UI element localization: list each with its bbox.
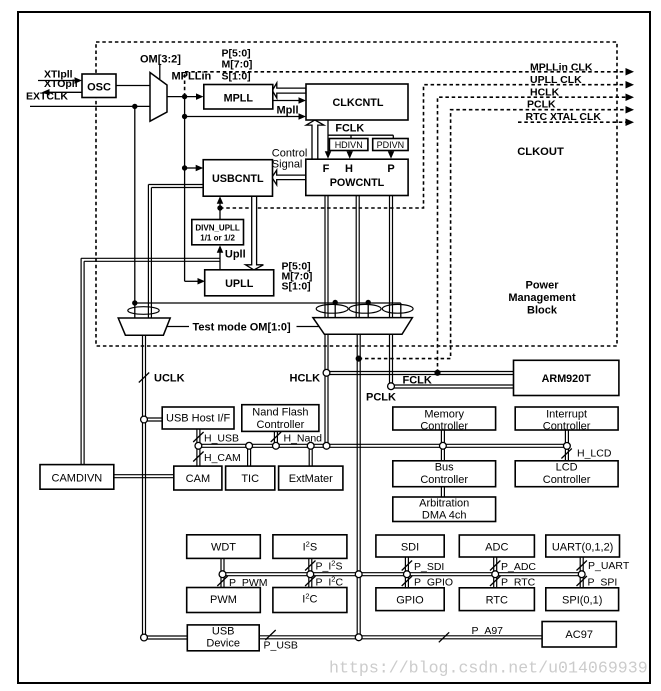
slash P_SDI <box>402 561 412 571</box>
wire test tap into ellipse 1 <box>334 303 336 319</box>
bus POWCNTL H rail <box>355 196 357 318</box>
bus I2S-I2C connector <box>308 558 310 587</box>
divider PDIVN <box>373 139 408 151</box>
net MPLLin CLK (dashed) <box>185 72 626 97</box>
wire MPLLin to USBCNTL <box>185 167 197 169</box>
wire test tap into ellipse 3 <box>400 303 402 318</box>
svg-text:SDI: SDI <box>401 542 419 554</box>
svg-text:HCLK: HCLK <box>290 373 321 385</box>
junction circle APB PCLK rail <box>355 571 362 578</box>
wire Upll DIVN_UPLL to USBCNTL <box>219 203 221 220</box>
svg-text:Arbitration: Arbitration <box>419 498 469 510</box>
bus SDI-GPIO connector <box>404 557 406 588</box>
slash P_USB <box>265 630 275 640</box>
slash P_A97 <box>439 632 449 642</box>
bus ADC-RTC connector <box>493 557 495 588</box>
svg-text:HDIVN: HDIVN <box>335 140 363 150</box>
svg-text:Interrupt: Interrupt <box>546 409 587 421</box>
svg-text:SPI(0,1): SPI(0,1) <box>562 595 602 607</box>
svg-text:Controller: Controller <box>420 474 468 486</box>
svg-text:Upll: Upll <box>225 249 246 261</box>
svg-text:UPLL CLK: UPLL CLK <box>530 74 582 86</box>
ellipse bundle P <box>382 304 413 313</box>
svg-text:Memory: Memory <box>424 409 464 421</box>
svg-text:Nand Flash: Nand Flash <box>252 407 308 419</box>
svg-text:OM[3:2]: OM[3:2] <box>140 54 181 66</box>
svg-text:P_RTC: P_RTC <box>501 577 536 589</box>
svg-text:P_UART: P_UART <box>588 560 630 572</box>
slash UCLK <box>139 373 149 383</box>
ellipse bundle H <box>349 304 381 313</box>
svg-text:UART(0,1,2): UART(0,1,2) <box>552 542 614 554</box>
svg-text:Bus: Bus <box>435 462 454 474</box>
svg-text:P_SDI: P_SDI <box>414 561 444 573</box>
wire test tap into left mux <box>134 303 136 318</box>
slash P_I2C <box>305 576 315 586</box>
net PCLK out (dashed) <box>359 110 626 359</box>
svg-text:UCLK: UCLK <box>154 373 185 385</box>
bus test mux out rail C (FCLK) <box>389 334 391 386</box>
svg-text:CAMDIVN: CAMDIVN <box>52 473 103 485</box>
junction dot HCLK dashed tap <box>434 370 440 376</box>
bus AHB HCLK horizontal <box>198 443 567 445</box>
block SPI(0,1) <box>546 588 619 611</box>
junction circle AHB HCLK rail <box>323 442 330 449</box>
svg-text:S[1:0]: S[1:0] <box>222 71 251 83</box>
block WDT <box>187 535 261 559</box>
svg-text:UPLL: UPLL <box>225 278 254 290</box>
svg-text:S[1:0]: S[1:0] <box>282 281 311 293</box>
svg-text:HCLK: HCLK <box>530 87 560 99</box>
junction circle UCLK to USB Host <box>141 416 148 423</box>
svg-text:H_CAM: H_CAM <box>204 452 241 464</box>
mux test mode right (FCLK/HCLK/PCLK) <box>313 318 413 335</box>
svg-text:PWM: PWM <box>210 594 237 606</box>
block UART(0,1,2) <box>546 535 620 557</box>
bus USB Host / CAM connector <box>196 429 198 466</box>
bus USB Device to AC97 (P_A97) <box>259 635 542 637</box>
slash H_Nand <box>271 432 281 442</box>
slash P_SPI <box>577 576 587 586</box>
svg-text:ARM920T: ARM920T <box>542 373 592 385</box>
bus UCLK rail (test mux to USB Device) <box>142 335 144 637</box>
svg-text:Mpll: Mpll <box>277 105 299 117</box>
svg-text:H_Nand: H_Nand <box>284 433 323 445</box>
svg-text:CLKOUT: CLKOUT <box>517 146 564 158</box>
svg-text:H_USB: H_USB <box>204 433 239 445</box>
block POWCNTL <box>306 159 408 195</box>
hollow arrow CLKCNTL to MPLL feedback <box>272 83 306 98</box>
svg-text:FCLK: FCLK <box>403 375 432 387</box>
block CAMDIVN <box>40 465 114 490</box>
junction circle APB I2C <box>307 571 314 578</box>
bus test mux out rail B (PCLK) <box>356 334 358 637</box>
block USBCNTL <box>203 160 272 197</box>
svg-text:LCD: LCD <box>556 462 578 474</box>
hollow arrow POWCNTL to CLKCNTL <box>306 120 324 159</box>
wire test tap into ellipse 2 <box>367 303 369 319</box>
slash P_PWM <box>217 576 227 586</box>
block I2S <box>273 535 347 559</box>
svg-text:ExtMater: ExtMater <box>289 473 333 485</box>
junction circle AC97 line <box>355 634 362 641</box>
junction circle APB RTC <box>492 571 499 578</box>
svg-text:USB Host I/F: USB Host I/F <box>166 413 230 425</box>
block GPIO <box>376 588 444 611</box>
junction dot test tap H <box>366 300 371 305</box>
junction circle AHB TIC <box>246 442 253 449</box>
ellipse bundle left mux <box>128 307 159 315</box>
block I2C <box>273 588 347 613</box>
svg-text:PDIVN: PDIVN <box>377 140 405 150</box>
svg-text:RTC: RTC <box>486 595 508 607</box>
svg-text:H_LCD: H_LCD <box>577 448 612 460</box>
net HCLK out (dashed) <box>438 97 627 373</box>
wire FCLK CLKCNTL to POWCNTL F <box>327 119 329 152</box>
svg-text:Test mode OM[1:0]: Test mode OM[1:0] <box>193 322 292 334</box>
wire PDIVN to POWCNTL P <box>390 150 392 152</box>
bus Nand Flash connector <box>273 431 275 445</box>
svg-text:DMA 4ch: DMA 4ch <box>422 510 467 522</box>
block USB Device <box>187 625 259 651</box>
slash P_GPIO <box>402 576 412 586</box>
slash H_CAM <box>193 452 203 462</box>
junction circle APB SPI <box>578 571 585 578</box>
junction circle APB GPIO <box>404 571 411 578</box>
net UPLL CLK (dashed) <box>220 85 626 208</box>
svg-text:Controller: Controller <box>543 421 591 433</box>
wire MPLLin to CLKCNTL <box>185 116 299 118</box>
svg-text:Device: Device <box>206 638 240 650</box>
wire OM mux output MPLLin <box>167 96 196 98</box>
svg-text:MPLLin CLK: MPLLin CLK <box>530 62 593 74</box>
junction circle AHB H_USB <box>195 442 202 449</box>
junction circle HCLK tap <box>323 369 330 376</box>
svg-text:P_ADC: P_ADC <box>501 561 536 573</box>
bus USBCNTL to test mux (UCLK source) <box>148 184 204 186</box>
block AC97 <box>542 622 616 648</box>
svg-text:P_I2S: P_I2S <box>316 559 343 573</box>
svg-text:https://blog.csdn.net/u0140699: https://blog.csdn.net/u014069939 <box>329 659 648 678</box>
divider DIVN_UPLL <box>192 220 244 245</box>
svg-text:OSC: OSC <box>87 81 111 93</box>
junction dot PCLK dashed tap <box>356 356 362 362</box>
junction dot MPLLin to CLKCNTL branch <box>182 114 187 119</box>
junction dot Upll tap for UPLL CLK <box>217 205 222 210</box>
svg-text:FCLK: FCLK <box>335 123 364 135</box>
bus POWCNTL P rail <box>389 196 391 318</box>
bus Bus controller to Arbitration connector <box>440 487 442 497</box>
svg-text:F: F <box>323 163 330 175</box>
block SDI <box>376 535 444 557</box>
slash P_UART <box>577 561 587 571</box>
wire XTIpll input <box>38 80 75 82</box>
bus Interrupt-LCD connector <box>564 430 566 461</box>
dashed boundary of clock generator block <box>96 42 617 346</box>
wire test-mode tap horizontal <box>135 302 401 304</box>
hollow arrow POWCNTL control signal to USBCNTL <box>272 170 306 185</box>
bus HCLK to ARM920T <box>327 371 514 373</box>
slash P_I2S <box>305 561 315 571</box>
block PWM <box>187 588 261 613</box>
svg-text:Power: Power <box>525 280 559 292</box>
mux test mode left (UCLK) <box>118 318 170 335</box>
block Interrupt Controller <box>515 407 618 430</box>
block UPLL <box>205 270 274 296</box>
svg-text:Management: Management <box>508 292 576 304</box>
svg-text:WDT: WDT <box>211 542 236 554</box>
bus Upll to CAMDIVN <box>81 257 220 259</box>
wire OM[3:2] select stem <box>159 64 161 79</box>
svg-text:USBCNTL: USBCNTL <box>212 173 264 185</box>
svg-text:P_A97: P_A97 <box>472 625 504 637</box>
wire XTOpll output <box>49 91 82 93</box>
junction circle UCLK to USB Device <box>141 634 148 641</box>
junction dot MPLLin at mux output <box>182 94 187 99</box>
svg-text:USB: USB <box>212 626 235 638</box>
junction dot test tap F <box>333 300 338 305</box>
test mode label dashes <box>167 326 189 328</box>
svg-text:P_PWM: P_PWM <box>229 577 268 589</box>
bus CAMDIVN to CAM <box>114 474 174 476</box>
wire OSC to OM mux <box>116 85 150 87</box>
block Bus Controller <box>393 461 496 487</box>
svg-text:P: P <box>387 163 394 175</box>
svg-text:Controller: Controller <box>257 419 305 431</box>
divider HDIVN <box>329 139 368 151</box>
svg-text:I2S: I2S <box>303 540 318 554</box>
svg-text:P_GPIO: P_GPIO <box>414 577 453 589</box>
bus Memory-Bus controller connector <box>440 430 442 461</box>
bus POWCNTL F rail <box>324 196 326 318</box>
svg-text:DIVN_UPLL: DIVN_UPLL <box>195 224 240 233</box>
mux OM[3:2] clock source select <box>150 73 167 122</box>
bus USB Device feed <box>144 635 187 637</box>
svg-text:M[7:0]: M[7:0] <box>222 59 253 71</box>
block CAM <box>174 466 222 490</box>
wire MPLLin vertical distribution <box>184 97 186 282</box>
block TIC <box>226 466 275 490</box>
svg-text:CLKCNTL: CLKCNTL <box>333 97 384 109</box>
wire HDIVN to POWCNTL H <box>349 150 351 152</box>
svg-text:P_USB: P_USB <box>264 640 298 652</box>
svg-text:P_SPI: P_SPI <box>588 577 618 589</box>
svg-text:RTC XTAL CLK: RTC XTAL CLK <box>526 111 602 123</box>
svg-text:PCLK: PCLK <box>366 392 396 404</box>
svg-text:GPIO: GPIO <box>396 595 424 607</box>
svg-text:P_I2C: P_I2C <box>316 575 344 589</box>
wire Upll UPLL to DIVN_UPLL <box>219 252 221 270</box>
block ADC <box>459 535 534 557</box>
slash H_USB <box>193 432 203 442</box>
svg-text:MPLL: MPLL <box>224 93 254 105</box>
oscillator OSC <box>82 74 116 98</box>
svg-text:CAM: CAM <box>186 473 210 485</box>
svg-text:Block: Block <box>527 305 558 317</box>
svg-text:Signal: Signal <box>272 159 303 171</box>
junction circle AHB ExtMater <box>307 442 314 449</box>
block MPLL <box>204 85 273 110</box>
bus UART-SPI connector <box>579 557 581 588</box>
slash P_RTC <box>490 576 500 586</box>
svg-text:ADC: ADC <box>485 542 508 554</box>
svg-text:EXTCLK: EXTCLK <box>26 91 68 103</box>
bus test mux out rail A (HCLK) <box>324 334 326 446</box>
junction circle AHB Nand <box>273 442 280 449</box>
junction circle APB PWM <box>219 571 226 578</box>
wire Mpll output MPLL to CLKCNTL <box>273 100 299 102</box>
svg-text:MPLLin: MPLLin <box>172 71 212 83</box>
bus WDT-PWM connector <box>220 558 222 587</box>
svg-text:PCLK: PCLK <box>527 99 556 111</box>
wire EXTCLK test-mode tap vertical <box>134 106 136 303</box>
block Memory Controller <box>393 407 496 430</box>
svg-text:XTOpll: XTOpll <box>44 78 78 90</box>
block ExtMater <box>279 466 343 490</box>
svg-text:I2C: I2C <box>302 592 317 606</box>
junction dot EXTCLK test tap <box>132 104 137 109</box>
block LCD Controller <box>515 461 618 487</box>
junction dot MPLLin to USBCNTL branch <box>182 165 187 170</box>
junction dot test line corner <box>132 300 137 305</box>
svg-text:AC97: AC97 <box>565 629 593 641</box>
net RTC XTAL CLK (dashed) <box>518 121 626 123</box>
junction circle AHB LCD <box>564 443 571 450</box>
bus UCLK tap to USB Host I/F <box>144 417 162 419</box>
svg-text:TIC: TIC <box>241 473 259 485</box>
block RTC <box>459 588 534 611</box>
junction circle AHB Memory-Bus <box>440 442 447 449</box>
svg-text:Controller: Controller <box>543 474 591 486</box>
bus APB PCLK horizontal <box>223 572 582 574</box>
slash H_LCD <box>561 449 571 459</box>
block CLKCNTL <box>306 84 408 120</box>
bus TIC connector <box>247 446 249 466</box>
svg-text:H: H <box>345 163 353 175</box>
wire FCLK branch to dividers <box>328 134 393 136</box>
block Nand Flash Controller <box>242 405 319 432</box>
block Arbitration DMA 4ch <box>393 497 496 522</box>
bus ExtMater connector <box>308 446 310 466</box>
hollow arrow USBCNTL to UPLL <box>246 196 264 270</box>
processor ARM920T <box>514 360 619 395</box>
block USB Host I/F <box>162 407 234 429</box>
wire MPLLin to UPLL <box>185 280 198 282</box>
bus FCLK to ARM920T <box>391 384 514 386</box>
svg-text:Controller: Controller <box>420 421 468 433</box>
junction circle FCLK tap <box>388 383 395 390</box>
slash P_ADC <box>490 561 500 571</box>
svg-text:1/1 or 1/2: 1/1 or 1/2 <box>200 234 235 243</box>
wire EXTCLK input <box>30 105 150 107</box>
svg-text:POWCNTL: POWCNTL <box>330 177 385 189</box>
ellipse bundle F <box>316 304 348 313</box>
